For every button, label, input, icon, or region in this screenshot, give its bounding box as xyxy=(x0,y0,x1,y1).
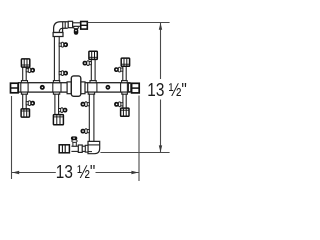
left end cap fitting xyxy=(11,83,19,93)
right dimension arrow up xyxy=(159,23,162,30)
svg-text:13 ½": 13 ½" xyxy=(56,161,96,182)
right dimension arrow down xyxy=(159,145,162,152)
top elbow xyxy=(53,22,68,37)
right dimension line upper segment xyxy=(160,23,162,80)
branch T2 lower nozzle xyxy=(59,71,68,76)
right end socket ring xyxy=(128,83,130,91)
svg-text:13 ½": 13 ½" xyxy=(147,79,187,100)
branch T4 cap xyxy=(121,58,129,66)
bottom elbow socket ring xyxy=(85,145,88,152)
cross junction J4 xyxy=(121,81,128,95)
right end cap fitting xyxy=(132,83,140,93)
drain dot right xyxy=(106,85,111,90)
bottom pipe coupling ring xyxy=(78,145,82,152)
branch B1 nozzle xyxy=(26,101,35,106)
branch T3 nozzle (left) xyxy=(83,61,92,66)
branch B4 nozzle (left) xyxy=(114,102,123,107)
bottom-right extension line xyxy=(100,152,169,154)
branch T1 riser xyxy=(23,67,27,81)
branch B3 riser (drop to lower elbow) xyxy=(89,94,94,142)
branch B2 cap xyxy=(53,115,63,125)
top horizontal pipe xyxy=(68,23,81,27)
cross junction J1 xyxy=(21,81,28,95)
branch T4 riser xyxy=(123,67,126,81)
bottom dimension arrow right xyxy=(131,171,138,174)
branch B1 cap xyxy=(21,109,29,117)
branch T3 riser xyxy=(91,59,95,81)
branch B4 riser xyxy=(123,94,126,109)
down nozzle under top pipe xyxy=(74,26,79,34)
branch B2 riser xyxy=(55,94,59,115)
up nozzle on bottom pipe xyxy=(71,136,77,146)
bottom left block fitting xyxy=(59,145,69,153)
drain dot left xyxy=(40,85,45,90)
branch B2 nozzle xyxy=(59,108,68,113)
top nozzle block fitting xyxy=(81,22,88,30)
bottom elbow xyxy=(88,141,100,153)
branch T4 nozzle (left) xyxy=(114,67,123,72)
top extension line xyxy=(88,22,170,24)
left extension line xyxy=(11,96,13,179)
branch T3 cap xyxy=(89,51,97,59)
branch B1 riser xyxy=(23,94,27,110)
branch T2 riser (center riser) xyxy=(54,36,59,81)
bottom dimension line right segment xyxy=(96,172,139,174)
branch B4 cap xyxy=(121,108,129,116)
bottom horizontal pipe xyxy=(71,146,85,151)
cross junction J3 xyxy=(88,81,97,95)
cross junction J2 xyxy=(53,81,61,95)
main pipe xyxy=(19,83,131,92)
bottom dimension arrow left xyxy=(12,171,19,174)
branch B3 upper nozzle (left) xyxy=(81,102,90,107)
top pipe coupling ring xyxy=(68,21,72,27)
branch B3 lower nozzle (left) xyxy=(81,129,90,134)
right dimension line lower segment xyxy=(160,100,162,153)
branch T1 nozzle xyxy=(26,68,35,73)
bottom dimension line left segment xyxy=(12,172,56,174)
branch T2 upper nozzle xyxy=(59,42,68,47)
branch T1 cap xyxy=(21,59,29,67)
central union coupling xyxy=(67,76,85,96)
bottom-right vertical extension line xyxy=(138,96,140,182)
